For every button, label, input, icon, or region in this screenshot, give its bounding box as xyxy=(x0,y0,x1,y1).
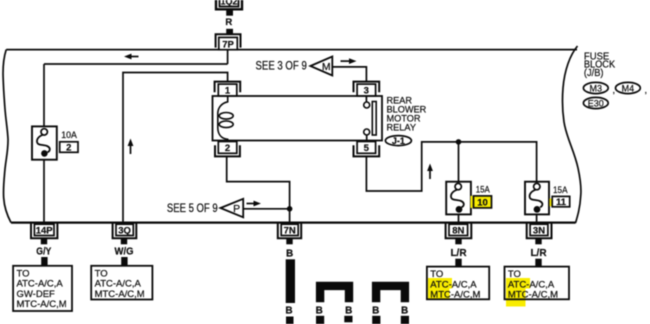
thick ground wire below 7N xyxy=(286,259,295,303)
fuse number box 11 xyxy=(550,196,570,208)
stub below staple2 right xyxy=(401,316,409,324)
fuse 15A (10) xyxy=(446,182,471,215)
svg-text:M4: M4 xyxy=(622,83,635,93)
relay pin 1 xyxy=(215,82,241,97)
wire stub above TO box 1 xyxy=(41,257,47,266)
fuse 15A (11) xyxy=(525,182,549,215)
fuse block bottom boundary line xyxy=(11,222,576,224)
connector 14P xyxy=(31,224,57,239)
REAR BLOWER MOTOR RELAY label xyxy=(387,95,427,132)
fuse block right torn edge xyxy=(562,46,581,223)
svg-text:B: B xyxy=(345,305,352,316)
wire stub above TO box 3 xyxy=(455,259,461,267)
svg-text:(J/B): (J/B) xyxy=(584,68,604,79)
destination box TO ATC/GW-DEF xyxy=(13,266,72,311)
stub below staple1 left xyxy=(316,316,324,324)
svg-text:MTC-A/C,M: MTC-A/C,M xyxy=(430,290,480,301)
connector oval E30 xyxy=(583,97,608,108)
svg-text:1: 1 xyxy=(225,86,231,97)
svg-text:3N: 3N xyxy=(533,226,545,237)
fuse number box 2 xyxy=(60,142,78,154)
stub below staple1 right xyxy=(344,316,352,323)
svg-text:MTC-A/C,M: MTC-A/C,M xyxy=(95,289,145,300)
svg-text:10: 10 xyxy=(477,197,488,208)
wire stub above 7P xyxy=(226,29,233,35)
connector 7P xyxy=(216,34,241,50)
relay pin 2 xyxy=(215,142,240,157)
wire stub below top connector xyxy=(226,10,233,16)
svg-text:SEE 3 OF 9: SEE 3 OF 9 xyxy=(256,61,307,73)
fuse block left torn edge xyxy=(3,50,11,223)
wire: horizontal to left fuse branch xyxy=(44,63,228,65)
relay contact xyxy=(364,96,376,142)
svg-text:5: 5 xyxy=(364,143,370,154)
svg-text:M: M xyxy=(322,61,331,73)
svg-text:RELAY: RELAY xyxy=(387,122,416,132)
svg-text:B: B xyxy=(372,305,379,316)
svg-text:2: 2 xyxy=(225,143,230,154)
svg-text:15A: 15A xyxy=(476,184,491,195)
wire: junction down to fuse 15A (10) xyxy=(458,142,460,182)
svg-text:B: B xyxy=(285,306,292,317)
wire stub above TO box 2 xyxy=(121,257,127,266)
relay pin 5 xyxy=(354,142,380,157)
svg-text:L/R: L/R xyxy=(450,248,467,259)
svg-text:B: B xyxy=(401,305,408,316)
relay body xyxy=(213,96,383,141)
wire: fuse 10 to 8N xyxy=(458,214,460,222)
wire: triangle P to 7N wire xyxy=(243,208,289,210)
svg-text:,: , xyxy=(613,85,616,95)
fuse 10A xyxy=(32,126,57,159)
up arrow beside riser xyxy=(427,164,433,180)
up arrow beside 3Q wire xyxy=(128,139,134,155)
wire stub below 3N xyxy=(535,238,541,244)
wire: pin 2 down, right, to 7N xyxy=(227,156,290,222)
svg-text:15A: 15A xyxy=(553,185,568,196)
wire: fuse 10A to 14P xyxy=(43,160,45,223)
wire: down to fuse 10A xyxy=(43,64,45,126)
wire: fuse 11 to 3N xyxy=(536,214,538,222)
wire: 7P down to junction level xyxy=(227,50,229,64)
connector 3N xyxy=(527,224,552,239)
connector 7N xyxy=(278,224,301,239)
svg-text:B: B xyxy=(316,305,323,316)
connector oval M3 xyxy=(583,82,615,95)
svg-text:2: 2 xyxy=(66,142,71,153)
relay oval J-1 xyxy=(385,136,411,146)
svg-text:G/Y: G/Y xyxy=(36,247,51,258)
wire stub above TO box 4 xyxy=(535,259,541,267)
svg-text:J-1: J-1 xyxy=(392,136,405,146)
destination box TO ATC/MTC (3Q) xyxy=(91,266,152,300)
relay pin 3 xyxy=(354,82,380,97)
destination box TO ATC/MTC (3N) xyxy=(505,267,570,307)
wire stub below 3Q xyxy=(121,238,127,244)
svg-text:14P: 14P xyxy=(36,226,54,237)
svg-text:7N: 7N xyxy=(284,226,296,237)
svg-text:7P: 7P xyxy=(222,39,234,50)
connector 8N xyxy=(446,224,472,239)
svg-text:E30: E30 xyxy=(588,98,604,108)
wire: relay pin1 riser and horizontal to 3Q branch xyxy=(123,73,228,223)
svg-text:3Q: 3Q xyxy=(118,226,131,237)
svg-text:8N: 8N xyxy=(452,226,464,237)
ground wire stub at bottom edge xyxy=(286,317,294,324)
right arrow above M wire xyxy=(341,58,357,64)
left arrow on top bus xyxy=(124,54,139,60)
wire: pin 5 down, right, up, across to fuses xyxy=(366,142,536,191)
connector box at top edge (cut off) xyxy=(216,0,242,9)
connector 3Q xyxy=(113,224,137,239)
svg-text:3: 3 xyxy=(364,86,369,97)
off-page triangle M xyxy=(310,57,332,76)
wire stub below 7N xyxy=(286,238,292,244)
wire: triangle M to relay pin 3 xyxy=(332,67,366,82)
svg-text:MTC-A/C,M: MTC-A/C,M xyxy=(17,299,67,310)
wire stub below 8N xyxy=(455,238,461,244)
svg-text:L/R: L/R xyxy=(530,248,547,259)
stub below staple2 left xyxy=(372,316,380,324)
svg-text:B: B xyxy=(286,249,293,260)
svg-text:SEE 5 OF 9: SEE 5 OF 9 xyxy=(167,203,218,215)
relay coil xyxy=(218,96,233,142)
svg-text:W/G: W/G xyxy=(115,247,134,258)
fuse block top boundary line xyxy=(6,49,577,51)
wire stub below 14P xyxy=(41,238,47,244)
svg-text:P: P xyxy=(233,203,240,215)
right arrow above P wire xyxy=(247,201,262,207)
svg-text:MTC-A/C,M: MTC-A/C,M xyxy=(508,290,558,301)
svg-text:R: R xyxy=(225,17,232,28)
off-page triangle P xyxy=(221,199,244,218)
svg-text:,: , xyxy=(645,85,648,95)
destination box TO ATC/MTC (8N) xyxy=(427,267,489,301)
junction dot at 7N wire xyxy=(287,206,293,212)
ground staple 2 xyxy=(376,286,405,302)
FUSE BLOCK (J/B) label xyxy=(584,51,615,79)
svg-text:10A: 10A xyxy=(61,130,77,141)
svg-text:M3: M3 xyxy=(590,83,603,93)
connector oval M4 xyxy=(616,82,648,95)
junction dot above fuse 15A (10) xyxy=(456,139,462,145)
svg-text:11: 11 xyxy=(556,197,567,208)
svg-text:1Q2: 1Q2 xyxy=(220,0,237,7)
ground staple 1 xyxy=(320,286,349,302)
fuse number box 10 (highlighted) xyxy=(471,196,492,208)
